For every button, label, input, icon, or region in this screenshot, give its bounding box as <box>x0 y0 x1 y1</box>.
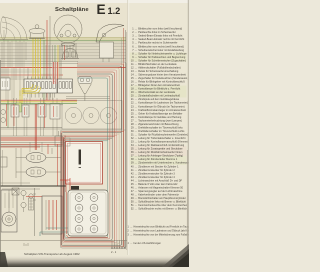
svg-text:Schlußleuchte rechts mit Brems: Schlußleuchte rechts mit Brems- u. Blink… <box>138 208 188 211</box>
svg-text:—: — <box>130 234 132 236</box>
svg-text:Hinweisleuchte von der Mittels: Hinweisleuchte von der Mittelsicherung z… <box>134 233 190 236</box>
svg-text:bei den US-Ausführungen: bei den US-Ausführungen <box>134 242 162 245</box>
svg-text:1.2: 1.2 <box>108 6 121 16</box>
svg-text:2 - 1: 2 - 1 <box>111 250 117 254</box>
svg-text:Hinweisleuchte zum Blinklicht: Hinweisleuchte zum Blinklicht und Fernli… <box>134 225 190 228</box>
svg-text:—: — <box>130 226 132 228</box>
svg-text:—: — <box>130 243 132 245</box>
svg-text:Schaltpläne: Schaltpläne <box>55 7 89 13</box>
svg-text:Hinweisleuchte zum Ladestrom u: Hinweisleuchte zum Ladestrom und Öldruck… <box>134 229 190 232</box>
svg-text:E: E <box>97 2 106 17</box>
svg-text:—: — <box>130 230 132 232</box>
